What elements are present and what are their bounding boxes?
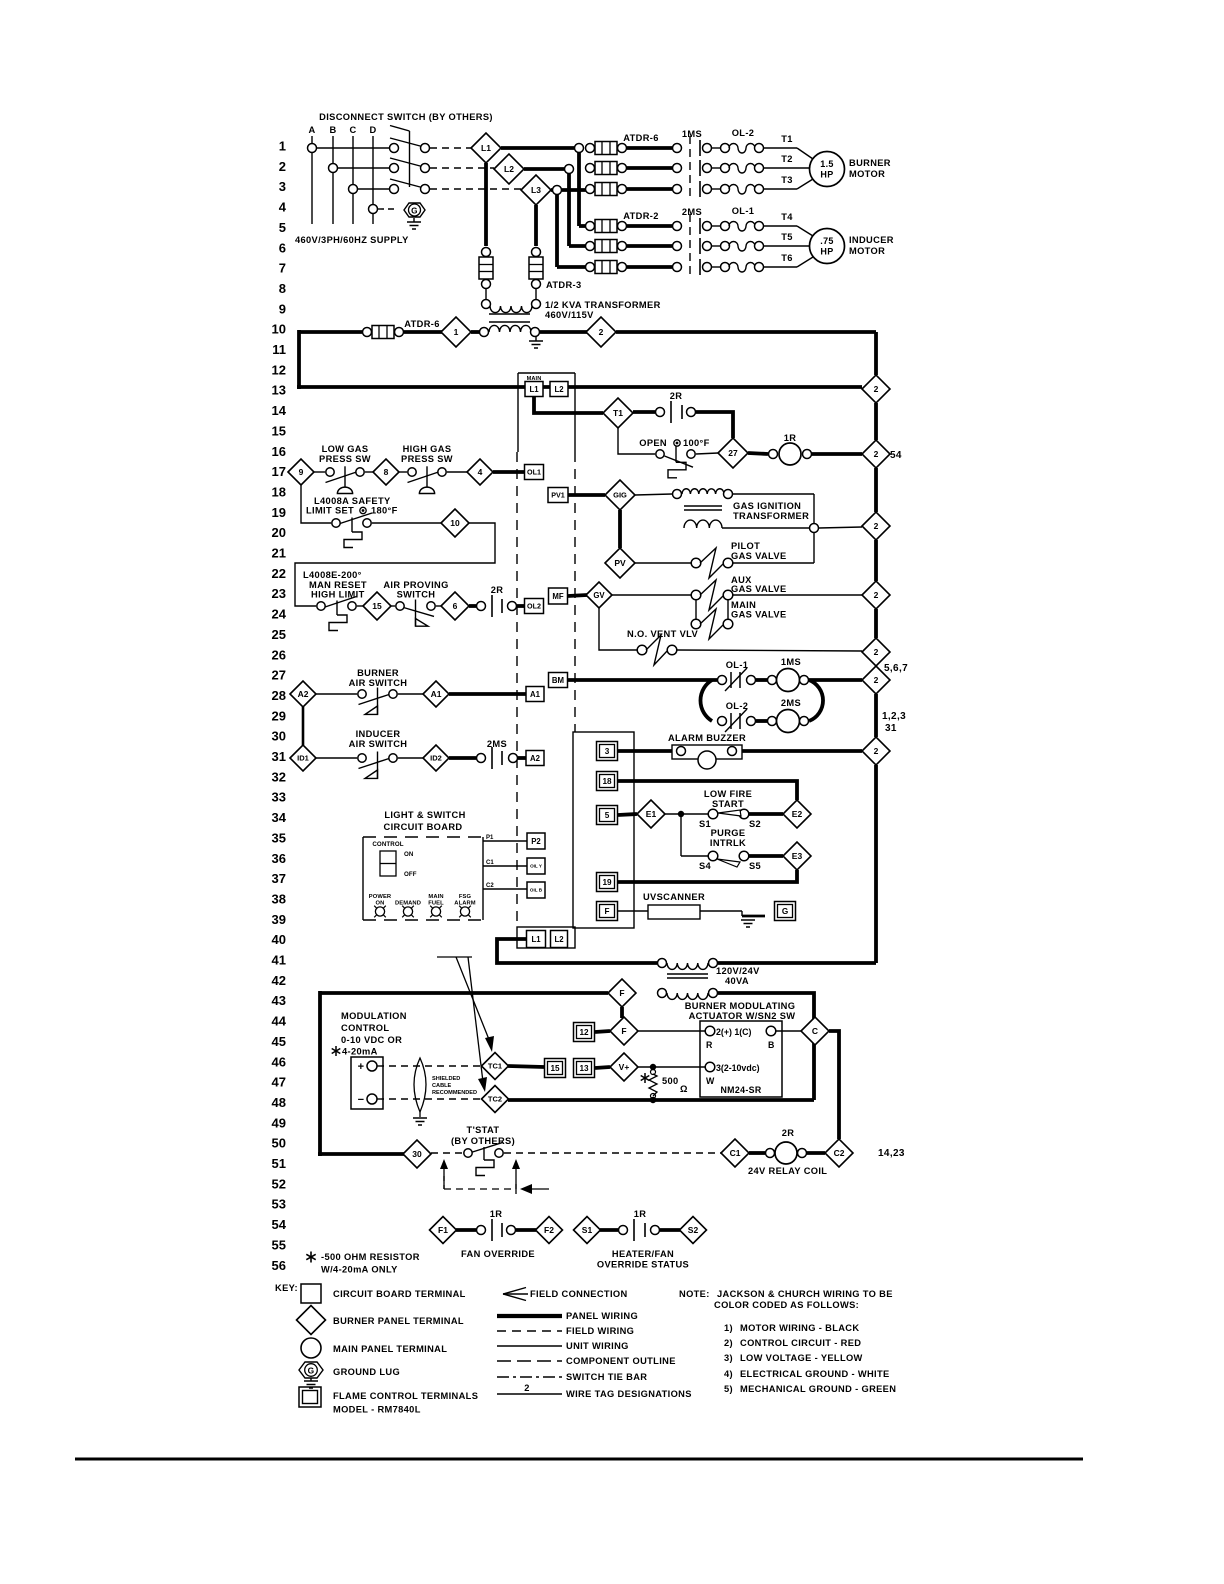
svg-text:19: 19: [602, 878, 612, 887]
burner panel terminal C1: [721, 1139, 749, 1167]
relay contact 2R: [633, 410, 655, 414]
wire row10 bus: [299, 330, 362, 334]
wire: [534, 397, 603, 413]
component outline dashed right: [574, 452, 576, 732]
key flame control terminal: [299, 1387, 321, 1407]
wire: [568, 493, 605, 497]
bottom rule: [75, 1458, 1083, 1461]
svg-text:22: 22: [272, 566, 286, 581]
svg-text:15: 15: [550, 1064, 560, 1073]
svg-text:L1: L1: [529, 385, 539, 394]
svg-text:HEATER/FAN: HEATER/FAN: [612, 1249, 674, 1259]
burner panel terminal ID2: [423, 745, 449, 771]
svg-text:PRESS SW: PRESS SW: [319, 454, 371, 464]
right bus vertical: [874, 332, 878, 375]
svg-text:5): 5): [724, 1384, 733, 1394]
wire: [612, 594, 691, 596]
svg-text:30: 30: [412, 1149, 422, 1159]
panel outline bottom box: [517, 927, 575, 948]
burner panel terminal 9: [288, 459, 314, 485]
pilot gas valve: [691, 558, 701, 568]
svg-text:GROUND LUG: GROUND LUG: [333, 1367, 400, 1377]
transformer secondary row10: [480, 328, 489, 337]
component outline dashed left: [516, 452, 518, 927]
svg-text:100°F: 100°F: [683, 438, 710, 448]
svg-text:POWER: POWER: [369, 894, 392, 900]
svg-text:INDUCER: INDUCER: [849, 235, 894, 245]
svg-text:START: START: [712, 799, 744, 809]
wire: [712, 167, 720, 169]
wire: [618, 814, 637, 815]
branch arc left: [700, 680, 712, 721]
svg-text:2: 2: [874, 590, 879, 600]
wire: [627, 146, 672, 150]
svg-text:MAIN: MAIN: [731, 600, 756, 610]
wire: [627, 265, 672, 269]
svg-text:13: 13: [272, 383, 286, 398]
relay contact 2R row23: [469, 604, 476, 608]
svg-text:L2: L2: [504, 164, 514, 174]
wire: [430, 147, 471, 149]
wire tag 2 row23: [862, 581, 890, 609]
burner panel terminal TC2: [482, 1086, 509, 1113]
svg-text:36: 36: [272, 851, 286, 866]
wire: [808, 678, 862, 682]
motor inducer .75HP: [810, 229, 845, 264]
wire: [618, 749, 672, 753]
svg-text:OIL B: OIL B: [530, 888, 543, 893]
wire row43: [320, 991, 608, 995]
svg-text:S1: S1: [582, 1225, 593, 1235]
svg-text:PV1: PV1: [551, 491, 565, 500]
svg-text:0-10 VDC OR: 0-10 VDC OR: [341, 1035, 402, 1045]
relay contact 1R fan: [456, 1228, 476, 1232]
svg-text:3(2-10vdc): 3(2-10vdc): [716, 1063, 760, 1073]
relay coil 1R: [748, 453, 768, 454]
svg-text:40: 40: [272, 932, 286, 947]
svg-text:MAN RESET: MAN RESET: [309, 580, 367, 590]
transformer core: [684, 505, 722, 507]
svg-text:18: 18: [602, 777, 612, 786]
svg-text:P1: P1: [486, 835, 494, 841]
air proving switch: [396, 602, 404, 610]
starter contact T3: [673, 185, 682, 194]
svg-text:13: 13: [579, 1064, 589, 1073]
wire: [627, 166, 672, 170]
svg-text:TRANSFORMER: TRANSFORMER: [733, 511, 809, 521]
wire: [436, 605, 441, 607]
svg-text:1/2 KVA TRANSFORMER: 1/2 KVA TRANSFORMER: [545, 300, 661, 310]
svg-text:GV: GV: [593, 591, 605, 600]
svg-text:+: +: [358, 1061, 365, 1073]
svg-text:L3: L3: [531, 185, 541, 195]
node: [678, 811, 684, 817]
svg-text:CIRCUIT BOARD: CIRCUIT BOARD: [384, 822, 463, 832]
svg-text:ON: ON: [404, 851, 414, 858]
svg-text:A1: A1: [530, 690, 541, 699]
svg-text:CIRCUIT BOARD TERMINAL: CIRCUIT BOARD TERMINAL: [333, 1289, 466, 1299]
starter contact T6: [673, 263, 682, 272]
circuit board terminal BM: [549, 673, 568, 688]
burner panel terminal T1: [603, 398, 633, 428]
burner panel terminal F2: [536, 1217, 563, 1244]
wire tag 2 row26: [862, 638, 890, 666]
svg-text:TC1: TC1: [488, 1062, 502, 1071]
wire: [700, 910, 742, 912]
svg-text:120V/24V: 120V/24V: [716, 966, 760, 976]
svg-text:S4: S4: [699, 861, 712, 871]
key ground lug: [299, 1362, 323, 1378]
relay contact 1R status: [600, 1228, 618, 1232]
wire: [712, 188, 720, 190]
burner panel terminal 27: [718, 438, 748, 468]
svg-text:9: 9: [299, 467, 304, 477]
svg-text:T'STAT: T'STAT: [467, 1125, 500, 1135]
svg-text:45: 45: [272, 1034, 286, 1049]
svg-text:D: D: [369, 125, 376, 135]
svg-text:FIELD WIRING: FIELD WIRING: [566, 1326, 634, 1336]
svg-text:FSG: FSG: [459, 894, 472, 900]
wire: [430, 167, 494, 169]
svg-text:3): 3): [724, 1353, 733, 1363]
svg-text:30: 30: [272, 729, 286, 744]
svg-text:SWITCH: SWITCH: [397, 590, 436, 600]
svg-text:AIR PROVING: AIR PROVING: [383, 580, 448, 590]
row number column 1-56: [272, 139, 287, 1273]
svg-text:2: 2: [279, 159, 286, 174]
svg-text:T2: T2: [781, 154, 793, 164]
wire: [568, 595, 587, 596]
svg-text:R: R: [706, 1040, 713, 1050]
key burner panel terminal: [297, 1306, 326, 1335]
svg-text:HP: HP: [820, 247, 833, 257]
svg-text:COMPONENT OUTLINE: COMPONENT OUTLINE: [566, 1356, 676, 1366]
svg-text:A2: A2: [530, 754, 541, 763]
svg-text:460V/115V: 460V/115V: [545, 310, 594, 320]
circuit board terminal A2: [526, 751, 544, 766]
svg-text:5: 5: [605, 811, 610, 820]
svg-text:10: 10: [272, 322, 286, 337]
svg-text:1MS: 1MS: [682, 129, 702, 139]
svg-text:2R: 2R: [491, 585, 504, 595]
svg-text:35: 35: [272, 830, 286, 845]
overload heater T3: [721, 185, 730, 194]
svg-text:MECHANICAL GROUND - GREEN: MECHANICAL GROUND - GREEN: [740, 1384, 896, 1394]
burner panel terminal E2: [783, 800, 811, 828]
svg-text:54: 54: [272, 1217, 287, 1232]
svg-text:W: W: [706, 1076, 715, 1086]
wire: [399, 471, 407, 473]
wire tag 2 row16: [862, 440, 890, 468]
svg-text:44: 44: [272, 1014, 287, 1029]
key field connection: [503, 1288, 526, 1295]
wire: [316, 693, 357, 695]
svg-text:LOW FIRE: LOW FIRE: [704, 789, 752, 799]
transformer core: [489, 313, 530, 315]
circuit board terminal OIL Y: [527, 858, 545, 874]
ground: [419, 1112, 421, 1117]
svg-text:S2: S2: [688, 1225, 699, 1235]
wire: [595, 1031, 610, 1032]
svg-text:51: 51: [272, 1156, 286, 1171]
arrow leader to TC1: [437, 956, 472, 958]
svg-text:4: 4: [478, 467, 483, 477]
svg-text:ID2: ID2: [430, 754, 442, 763]
wire tag 2 row31: [862, 737, 890, 765]
svg-text:L1: L1: [481, 143, 491, 153]
wire: [696, 453, 718, 454]
circuit board terminal OL2: [525, 599, 544, 614]
svg-text:A2: A2: [298, 689, 309, 699]
svg-text:29: 29: [272, 708, 286, 723]
svg-text:HP: HP: [820, 170, 833, 180]
flame control terminal G: [775, 902, 796, 921]
svg-text:E3: E3: [792, 851, 803, 861]
svg-text:14,23: 14,23: [878, 1148, 905, 1159]
wire: [635, 562, 691, 564]
wire row41: [497, 939, 657, 963]
overload heater T2: [721, 164, 730, 173]
svg-text:ALARM: ALARM: [454, 901, 475, 907]
svg-text:F: F: [621, 1026, 626, 1036]
svg-text:1,2,3: 1,2,3: [882, 711, 906, 722]
wire: [733, 493, 814, 495]
node: [650, 1064, 656, 1070]
wire: [540, 330, 587, 334]
wire: [301, 485, 331, 523]
svg-text:26: 26: [272, 647, 286, 662]
svg-text:T1: T1: [781, 134, 793, 144]
wire: [627, 187, 672, 191]
svg-text:FLAME CONTROL TERMINALS: FLAME CONTROL TERMINALS: [333, 1391, 478, 1401]
vent valve: [637, 645, 647, 655]
wire: [317, 147, 389, 149]
transformer 1/2KVA primary: [482, 300, 491, 309]
flame control terminal 12: [574, 1023, 595, 1042]
fuse ATDR row T4: [586, 222, 595, 231]
svg-text:53: 53: [272, 1197, 286, 1212]
svg-text:7: 7: [279, 261, 286, 276]
wire tag F row44: [610, 1017, 638, 1045]
svg-text:PANEL WIRING: PANEL WIRING: [566, 1311, 638, 1321]
wire to burner motor: [764, 147, 797, 149]
main gas valve: [691, 619, 701, 629]
control fuse ATDR-3 right: [532, 248, 541, 257]
wire: [749, 854, 783, 858]
svg-text:2MS: 2MS: [682, 207, 702, 217]
svg-text:54: 54: [890, 450, 902, 461]
limit switch L4008E: [317, 602, 325, 610]
svg-text:PV: PV: [614, 558, 626, 568]
svg-text:E1: E1: [646, 809, 657, 819]
svg-text:46: 46: [272, 1054, 286, 1069]
svg-text:PRESS SW: PRESS SW: [401, 454, 453, 464]
wire row48: [508, 1098, 814, 1102]
svg-text:2: 2: [874, 449, 879, 459]
svg-text:10: 10: [450, 518, 460, 528]
wire tag 2 row19: [862, 512, 890, 540]
burner panel terminal TC1: [482, 1053, 509, 1080]
wire: [568, 678, 717, 682]
svg-text:16: 16: [272, 444, 286, 459]
svg-text:49: 49: [272, 1115, 286, 1130]
gas ignition transformer secondary: [684, 520, 722, 528]
svg-text:2): 2): [724, 1338, 733, 1348]
wire: [404, 330, 442, 334]
svg-text:21: 21: [272, 546, 286, 561]
svg-text:23: 23: [272, 586, 286, 601]
wire: [712, 266, 720, 268]
svg-text:OL-1: OL-1: [726, 660, 749, 670]
limit switch L4008A: [332, 519, 340, 527]
overload heater T4: [721, 222, 730, 231]
svg-text:28: 28: [272, 688, 286, 703]
overload heater T1: [721, 144, 730, 153]
resistor 500 ohm: [644, 1073, 646, 1083]
svg-text:50: 50: [272, 1136, 286, 1151]
svg-text:43: 43: [272, 993, 286, 1008]
svg-text:38: 38: [272, 891, 286, 906]
svg-text:N.O. VENT VLV: N.O. VENT VLV: [627, 629, 698, 639]
starter contact 2MS aux: [449, 756, 476, 760]
svg-text:24V RELAY COIL: 24V RELAY COIL: [748, 1166, 827, 1176]
svg-text:34: 34: [272, 810, 287, 825]
svg-text:2R: 2R: [670, 391, 683, 401]
wire tag F: [608, 979, 636, 1007]
tstat switch: [464, 1149, 472, 1157]
svg-text:8: 8: [279, 281, 286, 296]
asterisk: [335, 1046, 337, 1056]
svg-text:OVERRIDE STATUS: OVERRIDE STATUS: [597, 1260, 689, 1270]
svg-text:GAS VALVE: GAS VALVE: [731, 584, 787, 594]
svg-text:-500 OHM RESISTOR: -500 OHM RESISTOR: [321, 1252, 420, 1262]
svg-text:F1: F1: [438, 1225, 448, 1235]
wire: [618, 910, 648, 912]
switch tie bar 2MS: [689, 214, 691, 279]
svg-text:PILOT: PILOT: [731, 541, 760, 551]
svg-text:JACKSON & CHURCH WIRING TO BE: JACKSON & CHURCH WIRING TO BE: [717, 1289, 893, 1299]
svg-text:NOTE:: NOTE:: [679, 1289, 710, 1299]
svg-text:1: 1: [454, 327, 459, 337]
wire: [378, 208, 398, 210]
svg-text:L4008E-200°: L4008E-200°: [303, 570, 362, 580]
ground: [535, 337, 537, 341]
svg-text:17: 17: [272, 464, 286, 479]
svg-text:S2: S2: [749, 819, 761, 829]
svg-text:52: 52: [272, 1176, 286, 1191]
burner panel terminal GIG: [605, 480, 635, 510]
svg-text:25: 25: [272, 627, 286, 642]
relay coil 2R: [749, 1151, 765, 1155]
svg-text:2MS: 2MS: [781, 698, 801, 708]
svg-text:C2: C2: [486, 883, 494, 889]
burner panel terminal 6: [441, 592, 469, 620]
svg-text:MOTOR: MOTOR: [849, 169, 885, 179]
burner panel terminal S1: [574, 1217, 601, 1244]
wire tag 2 row27: [862, 666, 890, 694]
wire: [712, 225, 720, 227]
ground lug G: [404, 203, 425, 217]
wire: [627, 224, 672, 228]
wire: [811, 452, 862, 456]
fuse ATDR row T1: [586, 144, 595, 153]
overload heater T6: [721, 263, 730, 272]
svg-text:31: 31: [885, 723, 897, 734]
wire: [742, 749, 862, 753]
fuse ATDR row T3: [586, 185, 595, 194]
wire: [718, 993, 814, 1100]
svg-text:27: 27: [272, 668, 286, 683]
svg-text:ID1: ID1: [297, 754, 309, 763]
svg-text:2MS: 2MS: [487, 739, 507, 749]
burner panel terminal 4: [467, 459, 493, 485]
key switch tie bar: [497, 1376, 562, 1378]
wire L1 feeder: [501, 146, 579, 150]
svg-text:TC2: TC2: [488, 1095, 502, 1104]
svg-text:2: 2: [874, 521, 879, 531]
purge interlock switch S4-S5: [708, 851, 718, 861]
wire tag V+: [610, 1053, 638, 1081]
starter contact T2: [673, 164, 682, 173]
svg-text:OL-2: OL-2: [726, 701, 749, 711]
flame control terminal 18: [597, 772, 618, 791]
svg-text:L2: L2: [554, 385, 564, 394]
svg-text:T1: T1: [613, 408, 623, 418]
wire A2-ID1: [302, 707, 305, 745]
svg-text:48: 48: [272, 1095, 286, 1110]
svg-text:F2: F2: [544, 1225, 554, 1235]
wire: [776, 1030, 801, 1032]
burner panel terminal 15: [363, 592, 391, 620]
svg-text:GAS VALVE: GAS VALVE: [731, 610, 787, 620]
svg-text:27: 27: [728, 448, 738, 458]
svg-text:C1: C1: [486, 860, 494, 866]
wire: [616, 330, 876, 334]
burner panel terminal 30: [403, 1140, 431, 1168]
wire: [365, 471, 373, 473]
main panel terminal L1 bottom: [527, 931, 546, 948]
svg-text:55: 55: [272, 1237, 286, 1252]
svg-text:AIR SWITCH: AIR SWITCH: [349, 739, 408, 749]
svg-text:ATDR-2: ATDR-2: [623, 211, 659, 221]
transformer 120/24 secondary: [658, 989, 667, 998]
wire: [733, 562, 814, 564]
svg-text:Ω: Ω: [680, 1084, 688, 1094]
svg-text:C: C: [812, 1026, 818, 1036]
svg-text:E2: E2: [792, 809, 803, 819]
wire: [314, 471, 325, 473]
burner panel terminal E1: [637, 800, 665, 828]
wire: [638, 1066, 705, 1068]
wire: [638, 1030, 705, 1032]
wire: [295, 523, 495, 606]
burner panel terminal F1: [430, 1217, 457, 1244]
svg-text:(BY OTHERS): (BY OTHERS): [451, 1136, 515, 1146]
svg-text:12: 12: [579, 1028, 589, 1037]
svg-text:HIGH GAS: HIGH GAS: [403, 444, 452, 454]
burner panel terminal E3: [783, 842, 811, 870]
svg-text:DEMAND: DEMAND: [395, 901, 421, 907]
wire left box: [318, 991, 322, 1156]
disconnect switch tie bar: [409, 131, 411, 187]
svg-text:AIR SWITCH: AIR SWITCH: [349, 678, 408, 688]
wire L3 drop to control fuse: [534, 205, 538, 246]
wire: [618, 781, 797, 800]
svg-text:14: 14: [272, 403, 287, 418]
key panel wiring: [497, 1314, 562, 1318]
field connection arrow up 1: [443, 1166, 445, 1189]
transformer core: [667, 973, 708, 975]
